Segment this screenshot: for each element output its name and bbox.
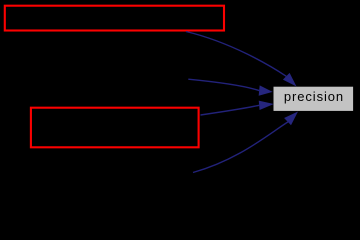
svg-text:precision: precision bbox=[284, 89, 344, 104]
